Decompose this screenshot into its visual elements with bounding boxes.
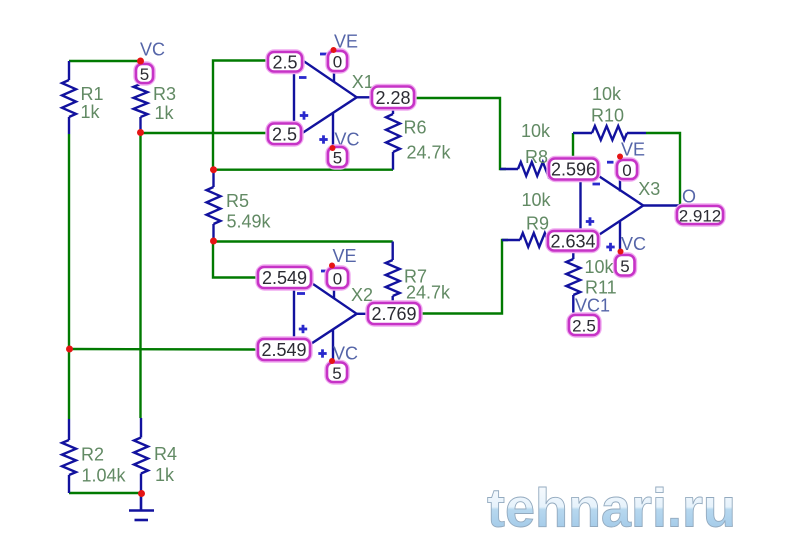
node R3 bottom junction [137, 129, 144, 136]
svg-text:2.634: 2.634 [550, 231, 595, 251]
svg-text:1k: 1k [81, 102, 101, 122]
wire R3 branch vertical [139, 133, 141, 418]
svg-text:R5: R5 [226, 191, 249, 211]
svg-text:VE: VE [621, 140, 645, 160]
voltage box X1 inv 2.5 [268, 52, 302, 72]
svg-text:2.5: 2.5 [272, 52, 297, 72]
svg-text:10k: 10k [521, 121, 551, 141]
wire X1 output to R8 [414, 98, 506, 169]
sign X2 VC supply [318, 349, 326, 357]
svg-text:1.04k: 1.04k [82, 466, 127, 486]
svg-text:10k: 10k [522, 190, 552, 210]
sign X1 noninverting [300, 111, 308, 119]
svg-text:2.769: 2.769 [371, 304, 416, 324]
wire node to X2 plus input [69, 348, 259, 351]
sign X2 VE supply [321, 270, 329, 273]
resistor R8 [500, 162, 560, 176]
svg-text:R6: R6 [404, 118, 427, 138]
voltage box X2 VC 5 [327, 363, 347, 383]
svg-text:1k: 1k [155, 103, 175, 123]
resistor R1 [62, 61, 76, 134]
wire X2 inverting net [213, 241, 259, 278]
svg-text:5.49k: 5.49k [227, 212, 272, 232]
resistor R6 [386, 107, 400, 170]
node feedback X1 junction [210, 166, 217, 173]
op-amp X2 output pin [357, 313, 370, 315]
op-amp X1 VC pin [332, 113, 334, 149]
node X3 VE pin dot [617, 154, 623, 160]
node X1 VC pin dot [330, 145, 336, 151]
node ground junction [138, 490, 145, 497]
sign X2 noninverting [299, 325, 307, 333]
sign X2 inverting [297, 292, 305, 295]
svg-text:2.5: 2.5 [572, 317, 596, 336]
node X2 VE pin dot [329, 263, 335, 269]
voltage box X1 VE 0 [328, 51, 347, 72]
svg-text:X3: X3 [638, 179, 660, 199]
op-amp X3 output pin [643, 204, 680, 206]
resistor R5 [207, 170, 221, 241]
sign X3 noninverting [586, 217, 594, 225]
sign X3 VC supply [606, 243, 614, 251]
node X3 VC pin dot [618, 249, 624, 255]
resistor R7 [386, 242, 400, 305]
sign X3 inverting [593, 183, 601, 186]
svg-text:R4: R4 [154, 444, 177, 464]
svg-text:5: 5 [140, 65, 149, 84]
wire feedback node to R6 [213, 168, 393, 170]
svg-text:5: 5 [620, 257, 629, 276]
sign X1 inverting [299, 76, 307, 79]
svg-text:VC: VC [140, 40, 165, 60]
svg-text:0: 0 [333, 53, 342, 72]
op-amp X2 VC pin [332, 329, 334, 361]
sign X1 VC supply [319, 135, 327, 143]
svg-text:24.7k: 24.7k [406, 283, 451, 303]
sign X3 VE supply [607, 161, 614, 164]
voltage box VC 5 [136, 64, 153, 84]
resistor R10 [573, 126, 646, 140]
wire X2 output to R9 [420, 240, 508, 314]
op-amp X3 VE pin [619, 157, 621, 192]
voltage box X3 out 2.912 [677, 206, 723, 226]
svg-text:10k: 10k [592, 84, 622, 104]
op-amp X2 body [294, 271, 357, 355]
resistor R9 [502, 233, 560, 247]
svg-text:2.596: 2.596 [551, 160, 596, 180]
resistor R11 [566, 251, 580, 313]
svg-text:2.549: 2.549 [261, 340, 306, 360]
node X1 VE pin dot [331, 47, 337, 53]
voltage box X3 VE 0 [617, 160, 637, 180]
wire node to R7 top [213, 240, 393, 242]
op-amp X1 output pin [357, 96, 372, 98]
svg-text:R9: R9 [526, 214, 549, 234]
voltage box X2 out 2.769 [368, 303, 420, 324]
svg-text:24.7k: 24.7k [407, 143, 452, 163]
op-amp X1 VE pin [333, 50, 335, 82]
resistor R4 [134, 418, 148, 493]
svg-text:R1: R1 [81, 84, 104, 104]
voltage box X3 nin 2.634 [548, 231, 598, 251]
sign X1 VE supply [320, 53, 327, 56]
node feedback X2 junction [210, 238, 217, 245]
voltage box VC1 2.5 [569, 315, 599, 336]
svg-text:5: 5 [333, 149, 342, 168]
op-amp X2 VE pin [333, 266, 335, 299]
ground [129, 494, 154, 521]
svg-text:0: 0 [333, 270, 342, 289]
wire R10 right to output node [646, 133, 680, 206]
wire bottom left (R2 to ground node) [69, 492, 141, 494]
svg-text:2.912: 2.912 [679, 207, 722, 226]
voltage box X1 VC 5 [328, 147, 347, 168]
svg-text:5: 5 [332, 364, 341, 383]
svg-text:10k: 10k [585, 257, 615, 277]
wire node to X1 plus input [141, 132, 269, 134]
wire X1 inverting net [213, 61, 268, 170]
op-amp X1 body [294, 55, 357, 139]
node VC junction [137, 58, 144, 65]
voltage box X2 nin 2.549 [258, 339, 310, 360]
resistor R3 [134, 60, 148, 133]
svg-text:2.549: 2.549 [262, 268, 307, 288]
svg-text:2.5: 2.5 [272, 124, 297, 144]
wire left vertical (R1 bottom to R2 top) [68, 134, 70, 419]
voltage box X3 VC 5 [616, 255, 635, 276]
svg-text:R8: R8 [525, 147, 548, 167]
svg-text:VC: VC [621, 234, 646, 254]
op-amp X3 VC pin [619, 221, 621, 252]
svg-text:R3: R3 [153, 84, 176, 104]
voltage box X1 out 2.28 [372, 87, 414, 109]
voltage box X2 inv 2.549 [258, 267, 311, 288]
node X2 VC pin dot [329, 358, 335, 364]
svg-text:R2: R2 [81, 445, 104, 465]
node divider left junction [66, 346, 73, 353]
svg-text:R11: R11 [585, 278, 617, 298]
voltage box X3 inv 2.596 [549, 159, 598, 180]
op-amp X3 body [581, 164, 644, 247]
svg-text:tehnari.ru: tehnari.ru [487, 477, 736, 539]
resistor R2 [62, 419, 76, 493]
svg-text:1k: 1k [155, 465, 175, 485]
svg-text:R10: R10 [591, 106, 624, 126]
svg-text:0: 0 [622, 161, 631, 180]
wire R10 left to inverting node [572, 133, 574, 161]
voltage box X2 VE 0 [327, 268, 348, 289]
svg-text:2.28: 2.28 [375, 88, 410, 108]
svg-text:VE: VE [333, 246, 357, 266]
voltage box X1 nin 2.5 [268, 124, 301, 145]
wire VC top rail [69, 60, 141, 62]
